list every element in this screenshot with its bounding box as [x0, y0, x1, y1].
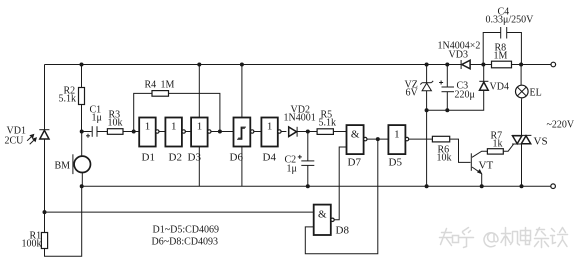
inverter D1 [139, 118, 159, 164]
svg-text:VT: VT [479, 160, 494, 172]
wire R6 to VT base [450, 139, 471, 162]
lamp EL [516, 65, 542, 101]
svg-text:100k: 100k [22, 239, 42, 250]
svg-text:D6: D6 [230, 152, 244, 164]
inverter D4 [261, 118, 281, 164]
wire return line [82, 185, 551, 187]
wire D5 out to R6 [409, 138, 433, 140]
svg-text:5.1k: 5.1k [59, 94, 77, 105]
svg-text:D6~D8:CD4093: D6~D8:CD4093 [152, 237, 219, 248]
nand D7 [347, 125, 367, 168]
node C2 top [306, 130, 310, 134]
inverter D5 [388, 125, 408, 168]
capacitor C2 [285, 132, 315, 187]
svg-text:6V: 6V [406, 88, 419, 99]
wire D8 out to D7 input [334, 147, 346, 220]
svg-text:~220V: ~220V [547, 120, 575, 131]
capacitor C1 [82, 105, 108, 138]
node VS bottom [520, 184, 524, 188]
svg-text:1μ: 1μ [92, 113, 102, 124]
svg-text:10k: 10k [437, 153, 452, 164]
svg-text:10k: 10k [108, 118, 123, 129]
wire left rail [44, 65, 46, 233]
svg-text:&: & [351, 129, 360, 141]
terminal neutral [551, 184, 556, 189]
svg-text:D2: D2 [169, 152, 182, 164]
resistor R4 with feedback wire [134, 80, 220, 132]
node VZ top [425, 63, 429, 67]
svg-text:1: 1 [197, 121, 203, 133]
capacitor C3 [439, 65, 475, 111]
node VD4 top [481, 63, 485, 67]
svg-text:D7: D7 [348, 157, 362, 169]
diode VD3 [438, 41, 481, 70]
resistor R5 [317, 129, 333, 135]
svg-text:D1: D1 [142, 152, 155, 164]
microphone BM [55, 132, 91, 187]
node D7 output [376, 137, 380, 141]
node C2 bottom [306, 184, 310, 188]
wire R7 to VS gate [503, 144, 513, 151]
node D3 power top [197, 63, 201, 67]
node VT emitter [480, 184, 484, 188]
nand D8 [314, 205, 350, 237]
zener VZ [405, 65, 434, 111]
wire D7 out to D5 [367, 138, 388, 140]
wire D7 out feedback down [305, 139, 378, 254]
svg-text:1M: 1M [161, 80, 175, 91]
svg-text:BM: BM [55, 161, 71, 172]
resistor R2 [81, 65, 83, 88]
svg-text:D1~D5:CD4069: D1~D5:CD4069 [153, 225, 220, 236]
resistor R1 [22, 186, 82, 256]
node C3 top [445, 63, 449, 67]
resistor R3 [107, 129, 123, 135]
svg-text:1: 1 [171, 121, 177, 133]
svg-text:2CU: 2CU [5, 136, 25, 147]
svg-text:1: 1 [267, 121, 273, 133]
resistor R7 [487, 149, 503, 154]
svg-text:1: 1 [394, 129, 400, 141]
resistor R6 [432, 136, 449, 142]
node D6 power top [240, 63, 244, 67]
node D3 output [218, 130, 222, 134]
node R2 top [80, 63, 84, 67]
wire VZ bottom to return [426, 110, 428, 186]
svg-text:5.1k: 5.1k [319, 118, 337, 129]
svg-text:1: 1 [145, 121, 151, 133]
wire D3 power vertical [198, 65, 200, 187]
node VZ bottom [425, 108, 429, 112]
svg-text:1N4001: 1N4001 [284, 113, 316, 124]
node D1 input / R4 feedback left [132, 130, 136, 134]
node BM bottom [80, 184, 84, 188]
triac VS [512, 100, 547, 186]
svg-text:1M: 1M [494, 51, 508, 62]
wire R1 node to D8 input [45, 211, 314, 213]
resistor R8 [492, 61, 512, 68]
svg-text:R4: R4 [145, 80, 157, 91]
wire D6 power vertical [241, 65, 243, 187]
schmitt nand D6 [230, 118, 254, 164]
wire signal D1..D6 row [156, 131, 166, 133]
svg-text:1μ: 1μ [287, 164, 297, 175]
node EL top [519, 63, 523, 67]
svg-text:D4: D4 [263, 152, 277, 164]
svg-text:&: & [318, 209, 327, 221]
wire top rail [45, 64, 553, 66]
svg-text:VS: VS [534, 136, 548, 148]
svg-text:EL: EL [530, 88, 542, 99]
svg-text:220μ: 220μ [455, 90, 475, 101]
capacitor C4 with R8 bridge [483, 7, 534, 65]
svg-text:D3: D3 [188, 152, 202, 164]
svg-text:1k: 1k [493, 139, 503, 150]
transistor VT [471, 151, 493, 186]
svg-text:D8: D8 [336, 225, 350, 237]
svg-text:D5: D5 [389, 157, 403, 169]
inverter D2 [165, 118, 185, 164]
svg-text:VD3: VD3 [449, 50, 468, 61]
svg-text:0.33μ/250V: 0.33μ/250V [486, 15, 535, 26]
inverter D3 [188, 118, 212, 164]
node supply return [425, 184, 429, 188]
diode VD2 [284, 105, 318, 137]
wire supply bottom node [427, 91, 484, 110]
node signal input [80, 130, 84, 134]
svg-text:VD4: VD4 [490, 82, 509, 93]
photodiode VD1 [5, 126, 50, 147]
terminal live [551, 62, 556, 67]
watermark [440, 228, 568, 248]
node C3 bottom [445, 108, 449, 112]
diode VD4 [479, 65, 509, 93]
